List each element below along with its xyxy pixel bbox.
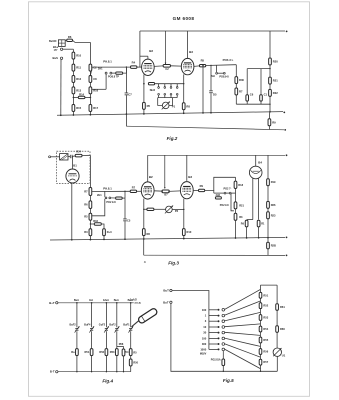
wire contact 4 to divider: [225, 324, 261, 327]
SH2 contact column 2 upper stub: [164, 84, 166, 87]
svg-text:B3: B3: [189, 50, 193, 54]
wire col 1 lower: [76, 356, 78, 372]
selector contact 2: [222, 314, 225, 317]
wire R31 to bus: [103, 236, 105, 240]
wire pickup to C9: [68, 156, 70, 158]
selector contact 1: [222, 309, 225, 312]
bus end terminal Fig.2: [283, 112, 285, 114]
wire R39b-R36: [235, 209, 237, 214]
wire SH1 stub down: [104, 191, 106, 197]
wire C7 upper: [125, 67, 127, 93]
svg-text:B+T: B+T: [49, 301, 55, 305]
selector contact 5: [222, 331, 225, 334]
node C5 tap: [210, 65, 211, 66]
SH2 contact 3 lower: [170, 93, 172, 95]
wire R24 out of box: [82, 154, 90, 156]
wire contact a stub down: [105, 74, 107, 89]
wire contact 1 to divider: [225, 290, 261, 310]
svg-text:GM 6008: GM 6008: [173, 16, 195, 21]
tube B3: [181, 58, 194, 74]
SH2 contact 1 lower: [158, 93, 160, 95]
wire trimmer to B3: [171, 65, 182, 67]
wire range 1000 stub: [209, 348, 218, 350]
wire R21-R22: [269, 84, 271, 89]
resistor R5: [199, 65, 205, 67]
Fig.3 ground bus: [50, 237, 285, 240]
svg-text:MΩ/V: MΩ/V: [200, 353, 207, 356]
node col 4 rail junction: [116, 302, 118, 304]
SH2 contact column 4 lower stub: [176, 95, 178, 97]
svg-text:Fig.4: Fig.4: [102, 378, 113, 383]
wire R35 to bus: [183, 236, 185, 239]
wire contact 8 to divider: [225, 349, 261, 369]
wire R9b right up to chain: [205, 177, 236, 190]
svg-text:C7: C7: [128, 93, 132, 97]
svg-text:R23: R23: [271, 213, 276, 217]
resistor R52: [259, 303, 262, 309]
wire C-line down: [124, 198, 126, 219]
svg-text:B1a: B1a: [53, 45, 58, 49]
SH2 contact column 1 upper stub: [158, 84, 160, 87]
wire C7 lower to bus: [125, 95, 127, 114]
svg-text:1000: 1000: [200, 347, 206, 351]
wire R29 left: [90, 223, 94, 225]
wire SH2 right down: [183, 84, 185, 103]
svg-text:R21: R21: [273, 79, 278, 83]
SH2 lower tie wire: [158, 97, 178, 99]
resistor R55: [129, 359, 132, 366]
wire col 3 lower: [105, 356, 107, 372]
bottom rail junction dots Fig.4: [76, 371, 77, 372]
wire R53-R54: [260, 320, 262, 326]
node C7 line: [126, 66, 127, 67]
wire contact b to R18: [112, 72, 115, 74]
wire range 300 stub: [209, 343, 218, 345]
svg-text:R60: R60: [280, 327, 285, 331]
resistor R27: [89, 213, 92, 220]
svg-text:R8: R8: [186, 104, 190, 108]
pot P2 circle: [166, 206, 173, 213]
wire rail to coupling trimmer (Fig.3): [164, 155, 166, 188]
svg-text:R4: R4: [132, 60, 136, 64]
wire rail to B4: [255, 155, 257, 166]
node B3 cathode junction: [183, 209, 184, 210]
resistor R51: [90, 349, 93, 356]
svg-text:R17: R17: [93, 106, 98, 110]
svg-text:300: 300: [202, 342, 207, 346]
cathode lead B2 (Fig.3): [143, 199, 145, 229]
wire R42 tap down: [231, 193, 234, 211]
wire POS3L down: [235, 65, 237, 77]
Fig.4 bottom rail: [58, 371, 131, 373]
svg-text:BuF2: BuF2: [109, 323, 116, 326]
coupling trimmer C2 between tubes: [163, 64, 170, 67]
wire meter to bottom rail: [276, 356, 278, 371]
wire ladder1 top: [72, 49, 74, 52]
wire contact 5 to divider: [225, 332, 261, 335]
SH4 contact a: [224, 192, 226, 194]
wire pot P2 right: [172, 208, 184, 210]
svg-text:B2: B2: [149, 49, 153, 53]
svg-text:100: 100: [202, 336, 207, 340]
wire divider top: [260, 285, 262, 292]
svg-text:R11: R11: [76, 66, 81, 70]
svg-text:R7: R7: [132, 186, 136, 190]
svg-text:BuA: BuA: [74, 299, 79, 302]
wire rail to R23 chain: [267, 155, 269, 178]
resistor R24: [75, 154, 82, 157]
Fig.3 top supply rail: [148, 154, 285, 156]
feedback loop wire R27 to SH1: [92, 199, 105, 216]
wire R51-R52: [260, 298, 262, 303]
wire R4 to tube B2: [137, 66, 142, 68]
trimmer arrow col 1: [75, 326, 80, 332]
capacitor C2 ladder2: [89, 64, 92, 71]
selector pin dot 7: [218, 343, 220, 345]
SH2 contact 4 upper: [176, 87, 178, 89]
wire divider to meter branch: [261, 284, 278, 286]
svg-text:12uA: 12uA: [103, 299, 109, 302]
wire R18b-R39b: [235, 189, 237, 202]
node C-line junction: [124, 191, 125, 192]
node tap ladder2: [90, 97, 92, 99]
wire meter branch upper: [276, 285, 278, 304]
resistor R14: [78, 96, 85, 98]
wire range 100 stub: [209, 337, 218, 339]
meter M1 circle: [273, 348, 281, 356]
node cathode junction: [143, 83, 145, 85]
tube B4 magic eye: [249, 166, 262, 179]
resistor R7: [235, 88, 238, 95]
svg-text:10: 10: [203, 325, 206, 329]
svg-text:C1: C1: [264, 93, 268, 97]
resistor R56: [259, 349, 262, 355]
svg-text:R13: R13: [76, 88, 81, 92]
resistor R5a: [143, 102, 146, 109]
pickup lead wire: [51, 156, 60, 158]
wire SH2 to pot P1: [158, 98, 163, 106]
trimmer capacitor col 3: [105, 327, 108, 329]
wire contact 7 to divider: [225, 344, 261, 357]
switch contact b: [110, 72, 112, 74]
selector pin dot 1: [218, 309, 220, 311]
node cathode junction (Fig.3): [143, 209, 144, 210]
grid wire chain to tube B2 (Fig.3): [92, 190, 131, 192]
wire R55 to bottom rail: [130, 366, 132, 372]
resistor R20: [269, 58, 272, 65]
wire up to grid wire: [124, 191, 126, 198]
SH2 contact column 1 lower stub: [158, 95, 160, 97]
resistor R54: [129, 349, 132, 356]
wire R41 bottom: [267, 249, 269, 255]
resistor R21: [269, 77, 272, 84]
terminal B1a: [60, 48, 62, 50]
wire R14 left: [73, 96, 78, 98]
svg-text:BuA: BuA: [128, 299, 133, 302]
svg-text:R26: R26: [271, 203, 276, 207]
resistor R39b: [234, 202, 237, 209]
svg-text:R57: R57: [263, 360, 268, 364]
SH4 contact b: [229, 192, 231, 194]
svg-text:B-T: B-T: [50, 370, 55, 374]
wire R28 to C-line: [122, 197, 125, 199]
selector pin dot 4: [218, 326, 220, 328]
resistor R7b: [130, 190, 136, 192]
wire SH3 stub up: [216, 65, 218, 72]
resistor R28: [116, 197, 123, 199]
node col 3 rail junction: [106, 302, 108, 304]
resistor R54: [259, 326, 262, 332]
SH2 contact 1 upper: [158, 87, 160, 89]
wire R33 to bus: [143, 236, 145, 239]
svg-text:R53: R53: [263, 316, 268, 320]
wire lower link: [236, 103, 270, 105]
wire SH4 contacts tie: [226, 192, 229, 194]
wire R12-R13: [72, 83, 74, 87]
svg-text:BuF2: BuF2: [69, 323, 76, 326]
cathode lead B2: [143, 74, 145, 83]
wire col 2 upper: [91, 303, 93, 327]
svg-text:2H2: 2H2: [216, 194, 221, 197]
wire R30-R7: [235, 84, 237, 88]
wire B3 cathode (Fig.3): [183, 199, 185, 229]
bottom rail junction dot Fig.5: [223, 371, 224, 372]
wire R40 to bus: [267, 219, 269, 238]
svg-text:R51: R51: [85, 350, 90, 354]
wire col 5 upper: [130, 303, 132, 327]
svg-text:R16: R16: [93, 219, 98, 223]
svg-text:R51: R51: [263, 293, 268, 297]
resistor R12: [72, 76, 75, 83]
wire R18 to C7 line: [123, 67, 127, 73]
resistor R62: [222, 359, 225, 366]
wire R16-R17: [89, 94, 91, 105]
pickup terminal: [49, 156, 51, 158]
wire R37 to bus: [246, 227, 248, 238]
resistor R9: [268, 119, 271, 126]
svg-text:R7: R7: [239, 90, 243, 94]
svg-text:R10: R10: [76, 54, 81, 58]
wire box output down: [89, 155, 91, 187]
wire rail to B3 anode (Fig.3): [186, 155, 188, 181]
resistor R40: [267, 212, 270, 219]
svg-text:R12: R12: [76, 77, 81, 81]
wire R10-R11: [72, 59, 74, 64]
svg-text:R5: R5: [201, 59, 205, 63]
wire C9 to R24: [72, 155, 75, 157]
resistor R53: [115, 349, 118, 356]
wire R17 to bus: [89, 112, 91, 115]
wire range 3 stub: [209, 320, 218, 322]
wire B1a to ladder 1: [63, 48, 74, 50]
selector pin dot 5: [218, 332, 220, 334]
svg-text:R18: R18: [238, 183, 243, 187]
wire rail to grid line (Fig.2): [139, 31, 141, 67]
svg-text:GuF2: GuF2: [99, 323, 106, 326]
wire screen tap to bus: [202, 66, 204, 113]
wire box to R6: [65, 39, 67, 41]
svg-text:R55: R55: [263, 338, 268, 342]
wire R5 to POS 3 L: [206, 64, 237, 67]
svg-text:C2: C2: [93, 66, 97, 70]
svg-text:R10: R10: [187, 230, 192, 234]
resistor R15: [72, 105, 75, 112]
resistor R18: [116, 72, 123, 74]
resistor R42: [215, 197, 221, 199]
svg-text:R9: R9: [272, 120, 276, 124]
svg-text:C8: C8: [93, 77, 97, 81]
grid lead B1: [72, 157, 74, 170]
trimmer arrow col 4: [115, 326, 120, 332]
capacitor C9: [69, 155, 71, 158]
resistor R26: [89, 201, 92, 209]
svg-text:PH.8.1: PH.8.1: [103, 60, 112, 64]
wire R26-R27: [89, 209, 91, 214]
wire BuS down to ground bus: [60, 59, 62, 115]
svg-text:SH: SH: [211, 75, 215, 78]
selector contact 8: [222, 348, 225, 351]
resistor R30: [235, 77, 238, 84]
resistor R25: [89, 188, 92, 196]
Fig.4 top rail: [58, 302, 134, 304]
pot P1 circle: [162, 102, 169, 109]
SH2 contact column 3 lower stub: [170, 95, 172, 97]
wire C5 lower to bus: [210, 93, 212, 113]
wire range 30 stub: [209, 332, 218, 334]
resistor R60: [276, 326, 279, 333]
node tap ladder1: [73, 97, 75, 99]
resistor R53: [259, 315, 262, 321]
wire range 100 stub: [209, 309, 218, 311]
wire SH1 to R28: [111, 197, 116, 199]
node col 1 rail junction: [76, 302, 78, 304]
wire rail to trimmer C2 (Fig.2): [165, 31, 167, 64]
resistor R4: [131, 66, 137, 69]
svg-text:Fig.3: Fig.3: [168, 261, 179, 266]
wire ladder2 to grid wire: [90, 67, 130, 75]
wire C1 lower: [260, 101, 262, 104]
wire B2 to trimmer: [154, 65, 163, 68]
wire SH3 tie: [218, 72, 224, 74]
wire contact 6 to divider: [225, 338, 261, 346]
svg-text:PO2.81A: PO2.81A: [211, 359, 221, 362]
capacitor C1: [260, 95, 263, 101]
svg-text:POS 3 L: POS 3 L: [223, 58, 234, 62]
wire R36 to bus: [235, 220, 237, 238]
wire R25-R26: [89, 196, 91, 201]
svg-text:R56: R56: [263, 350, 268, 354]
svg-text:PO8.9-8: PO8.9-8: [219, 76, 229, 79]
svg-text:BuS: BuS: [53, 56, 59, 60]
wire anode B2 to rail tap: [140, 55, 148, 57]
svg-text:R8: R8: [147, 232, 151, 236]
wire ladder2 top: [89, 42, 91, 64]
resistor R55: [259, 337, 262, 343]
svg-text:R3: R3: [84, 230, 88, 234]
wire contact stub to ladder2: [92, 88, 106, 90]
wire R8 to bus: [183, 110, 185, 114]
svg-text:PH.8.1: PH.8.1: [103, 186, 112, 190]
svg-text:D5: D5: [213, 92, 217, 96]
cathode lead B1 down: [71, 183, 73, 240]
selector contact 6: [222, 337, 225, 340]
svg-text:R52: R52: [263, 304, 268, 308]
wire R6 to ladder 2 top: [73, 40, 91, 42]
wire leg tie: [247, 219, 253, 221]
SH2 contact 3 upper: [170, 87, 172, 89]
resistor R38: [257, 220, 260, 227]
wire R58 top: [123, 346, 125, 349]
trimmer capacitor col 4: [115, 327, 118, 329]
svg-text:R21: R21: [239, 203, 244, 207]
resistor R57: [259, 359, 262, 365]
wire R38 to bus: [258, 227, 260, 238]
resistor R32: [89, 229, 92, 236]
svg-text:Fig.5: Fig.5: [223, 378, 234, 383]
meter M1 arrow: [273, 348, 281, 356]
bus junction dots Fig.2: [60, 114, 62, 116]
wire R14 right: [85, 96, 91, 98]
resistor R16: [89, 87, 92, 94]
wire col 4 middle: [116, 331, 118, 348]
svg-text:R20: R20: [273, 60, 278, 64]
wire rail to R20: [269, 31, 271, 58]
Fig.3 rail end dot: [286, 154, 288, 156]
bus junction dots Fig.3: [71, 239, 73, 241]
wire col5 R54-R55: [130, 356, 132, 360]
pot P2 arrow: [165, 206, 173, 214]
svg-text:R24: R24: [76, 150, 81, 154]
wire C1 upper: [260, 69, 262, 95]
svg-text:R19: R19: [271, 180, 276, 184]
node lower link: [269, 104, 270, 105]
wire SH4 to chain: [231, 192, 235, 194]
svg-text:BuT: BuT: [163, 289, 169, 293]
wire rail to B2 anode (Fig.3): [147, 155, 149, 181]
switch contact a: [105, 72, 107, 74]
svg-text:R5: R5: [147, 104, 151, 108]
svg-text:30: 30: [203, 331, 206, 335]
resistor R33: [142, 229, 145, 236]
SH1 contact b: [109, 197, 111, 199]
Fig.2 ground bus: [57, 112, 283, 116]
SH2 contact column 2 lower stub: [164, 95, 166, 97]
wire R23-R39: [267, 186, 269, 202]
svg-text:C6: C6: [250, 93, 254, 97]
wire SH2 top: [155, 83, 184, 85]
capacitor C5: [209, 90, 213, 92]
B4 leg left: [252, 178, 254, 219]
resistor R8: [182, 103, 185, 110]
wire bus to lower rail connector: [125, 114, 127, 126]
wire contact 2 to divider: [225, 301, 261, 315]
tube B3 (Fig.3): [180, 182, 193, 199]
svg-text:R6: R6: [68, 35, 72, 39]
svg-text:R52: R52: [99, 350, 104, 354]
wire R9 bottom: [268, 126, 270, 130]
wire R54-R55: [260, 332, 262, 337]
wire R13-R15 with tap: [72, 94, 74, 105]
wire R22 to bus: [269, 96, 271, 112]
svg-text:BuF1: BuF1: [123, 323, 130, 326]
wire col 3 upper: [105, 303, 107, 327]
crystal pickup box: [60, 154, 68, 160]
microphone input dashed box: [57, 151, 90, 183]
svg-text:R58: R58: [119, 343, 124, 346]
bus end dot Fig.3: [286, 237, 288, 239]
Fig.2 lower rail: [126, 126, 284, 130]
resistor Ra: [76, 349, 79, 356]
